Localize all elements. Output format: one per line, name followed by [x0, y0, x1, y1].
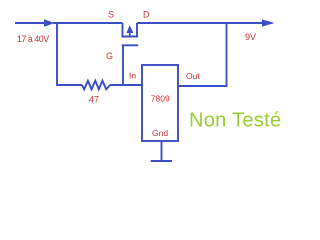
ground stem: [161, 141, 163, 161]
resistor R1 zigzag: [82, 81, 110, 90]
transistor Q1 arrow (pointing up): [126, 25, 133, 33]
svg-text:17 à 40V: 17 à 40V: [17, 34, 49, 44]
wire: resistor to regulator In pin: [110, 84, 142, 86]
wire: Out pin horizontal: [178, 85, 227, 87]
wire: input line from 17-40V source: [15, 22, 45, 24]
svg-text:7809: 7809: [151, 94, 170, 104]
wire: right branch vertical up to 9V rail: [226, 22, 228, 87]
wire: gate lead down to In node: [122, 45, 124, 85]
svg-text:Out: Out: [186, 71, 200, 81]
svg-text:G: G: [106, 51, 113, 61]
svg-text:Non Testé: Non Testé: [189, 110, 281, 132]
input arrowhead: [44, 19, 55, 26]
regulator U1 7809 box: [142, 65, 178, 141]
wire: top rail from MOSFET drain to output arrow: [137, 22, 263, 24]
wire: left branch vertical down to resistor: [56, 22, 58, 86]
output arrowhead 9V: [262, 19, 275, 26]
svg-text:In: In: [129, 71, 136, 81]
wire: bottom left horizontal to resistor: [56, 84, 82, 86]
svg-text:S: S: [108, 10, 114, 20]
ground bar: [151, 160, 172, 162]
transistor Q1 channel (S-D body, U shape): [123, 23, 138, 37]
svg-text:47: 47: [89, 95, 99, 105]
wire: top rail from input junction to MOSFET source: [53, 22, 123, 24]
transistor Q1 gate bar: [122, 44, 139, 46]
svg-text:Gnd: Gnd: [152, 128, 168, 138]
svg-text:9V: 9V: [245, 32, 256, 42]
svg-text:D: D: [143, 10, 150, 20]
